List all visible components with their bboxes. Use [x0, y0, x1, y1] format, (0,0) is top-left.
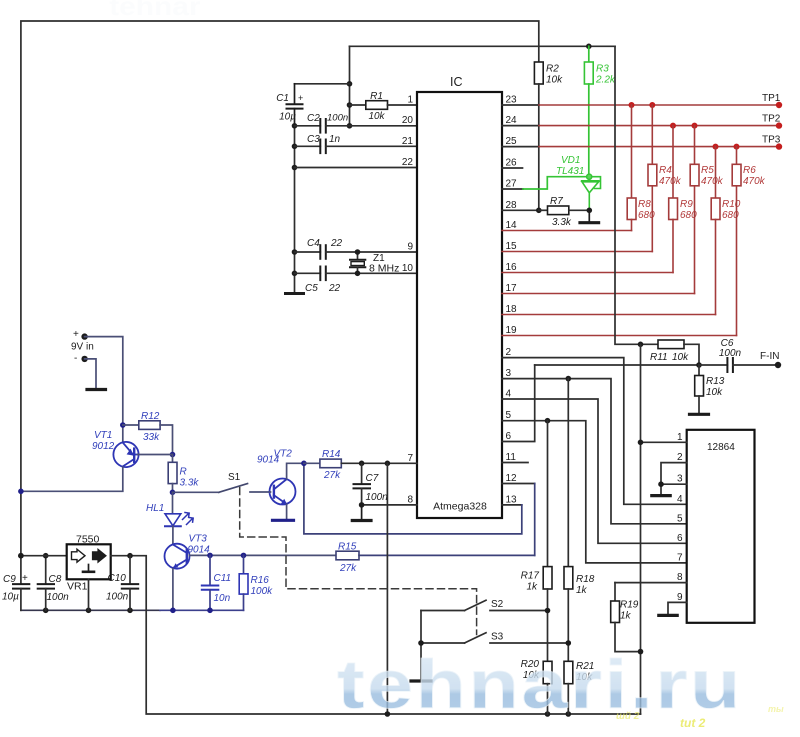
svg-text:R17: R17 [521, 571, 540, 582]
svg-text:20: 20 [402, 115, 414, 126]
wire LCD pin2+pin3 to ground [661, 463, 687, 495]
wire VR1 ground pin [88, 579, 90, 610]
svg-text:R: R [180, 467, 187, 478]
svg-text:HL1: HL1 [146, 503, 164, 514]
svg-text:14: 14 [506, 220, 518, 231]
svg-text:8: 8 [407, 494, 413, 505]
svg-text:470k: 470k [659, 176, 682, 187]
svg-text:1: 1 [677, 432, 683, 443]
resistor R20 10k [521, 659, 552, 714]
node C10 tap [127, 553, 133, 559]
capacitor C4 on pin9 wire [295, 245, 418, 259]
wire VR1 output rail to +5V bottom rail [111, 556, 641, 714]
node +5V branch to LCD pin1 [638, 342, 644, 348]
node VT1 base / R12 / R [170, 452, 176, 458]
pin labels left side [402, 95, 414, 506]
svg-text:19: 19 [506, 325, 518, 336]
svg-text:24: 24 [506, 115, 518, 126]
node 9V rail / R12 / VT1 emitter [120, 422, 126, 428]
wire VT3 emitter [172, 569, 174, 611]
svg-text:6: 6 [677, 533, 683, 544]
svg-text:VD1: VD1 [561, 155, 580, 166]
wire VT1 collector to left rail [21, 467, 123, 491]
svg-text:+: + [298, 93, 303, 103]
wire IC pin8 (GND) [362, 504, 417, 506]
svg-text:R4: R4 [659, 165, 672, 176]
svg-text:R15: R15 [338, 542, 357, 553]
resistor R2 [534, 62, 563, 210]
wire VT2 collector [287, 463, 304, 478]
svg-text:16: 16 [506, 262, 518, 273]
svg-text:R11: R11 [650, 352, 668, 363]
svg-text:100k: 100k [251, 586, 274, 597]
wire IC pin3 to LCD pin5 [502, 379, 687, 524]
svg-text:11: 11 [506, 452, 517, 463]
resistor R4 470k (red, TP1 divider high) [648, 105, 682, 252]
node C8 tap on VR1 input rail [43, 553, 49, 559]
wire VT2 base [269, 491, 272, 493]
svg-text:9014: 9014 [257, 455, 280, 466]
node junction C1 branch [347, 81, 353, 129]
svg-text:8 MHz: 8 MHz [369, 263, 399, 275]
svg-text:tehnari.ru: tehnari.ru [337, 646, 743, 723]
ground for left rail [286, 292, 304, 295]
svg-text:1n: 1n [329, 134, 341, 145]
svg-text:1k: 1k [576, 585, 588, 596]
resistor R18 1k [564, 379, 595, 662]
svg-text:2.2k: 2.2k [595, 75, 616, 86]
resistor R19 1k [611, 583, 644, 655]
node C9 tap [18, 553, 24, 559]
svg-text:TP1: TP1 [762, 93, 781, 104]
IC U1 Atmega328 box [417, 75, 502, 518]
wire IC pin5 to LCD pin7 [502, 421, 687, 563]
capacitor C3 on pin21 wire [295, 140, 418, 154]
svg-text:C7: C7 [366, 473, 379, 484]
terminal F-IN [733, 351, 781, 368]
svg-text:F-IN: F-IN [760, 351, 779, 362]
svg-text:21: 21 [402, 136, 414, 147]
wire IC pin6 up to F-IN node [502, 365, 535, 442]
svg-text:3: 3 [677, 474, 683, 485]
resistor R8 680 (red, TP1 divider low) [627, 105, 655, 231]
transistor VT1 9012 (PNP) [92, 430, 139, 467]
switch S2 [421, 599, 550, 613]
capacitor C8 100n [38, 556, 69, 611]
wire pin17 (red) [502, 293, 695, 295]
svg-text:100n: 100n [106, 592, 129, 603]
resistor R 3.3k [168, 455, 199, 493]
svg-text:9V in: 9V in [71, 342, 94, 353]
svg-text:VT3: VT3 [189, 534, 208, 545]
crystal Z1 [350, 249, 399, 276]
capacitor C11 10n [202, 555, 231, 610]
capacitor C9 10u (electrolytic) [2, 573, 29, 610]
svg-text:13: 13 [506, 494, 518, 505]
svg-text:100n: 100n [47, 592, 70, 603]
wire pin23 to TP1 (red) [502, 93, 782, 108]
svg-text:1: 1 [407, 95, 413, 106]
resistor R6 470k (red, TP3 divider high) [732, 147, 765, 336]
LED HL1 [146, 492, 193, 543]
svg-text:R14: R14 [322, 449, 341, 460]
wire VT1 base [138, 454, 173, 456]
svg-text:C8: C8 [49, 574, 62, 585]
ground for LCD pin9 [659, 614, 677, 617]
wire analog ground rail [21, 609, 244, 611]
ground for R13 [690, 413, 709, 416]
svg-text:TL431: TL431 [556, 166, 584, 177]
wire pin16 (red) [502, 272, 673, 274]
svg-text:12864: 12864 [707, 442, 735, 453]
svg-text:2: 2 [677, 452, 683, 463]
resistor R10 680 (red, TP3 divider low) [711, 147, 741, 315]
svg-text:C3: C3 [307, 134, 320, 145]
svg-text:R3: R3 [596, 64, 609, 75]
ground for S2/S3 [411, 679, 431, 682]
svg-text:9012: 9012 [92, 441, 115, 452]
svg-text:9: 9 [677, 592, 683, 603]
wire VR1 input rail [21, 555, 67, 557]
svg-text:12: 12 [506, 473, 518, 484]
svg-text:R8: R8 [638, 199, 651, 210]
svg-text:3.3k: 3.3k [552, 217, 572, 228]
svg-text:8: 8 [677, 572, 683, 583]
svg-text:IC: IC [450, 75, 463, 89]
ground for TL431 anode [580, 210, 599, 222]
svg-text:7: 7 [677, 552, 683, 563]
svg-text:TP3: TP3 [762, 135, 781, 146]
svg-text:R6: R6 [743, 165, 756, 176]
switch S1 [173, 472, 270, 492]
wire F-IN node line to IC pin6 column [535, 364, 699, 366]
resistor R16 100k [239, 555, 273, 610]
resistor R7 [536, 196, 592, 228]
svg-text:VR1: VR1 [67, 581, 88, 593]
svg-text:470k: 470k [701, 176, 724, 187]
resistor R11 10k [650, 340, 699, 365]
svg-text:6: 6 [506, 431, 512, 442]
resistor R1 [350, 91, 418, 122]
transistor VT3 9014 (NPN, base right) [165, 534, 211, 569]
svg-text:23: 23 [506, 95, 518, 106]
svg-text:S3: S3 [491, 632, 504, 643]
svg-text:C5: C5 [305, 283, 318, 294]
wire pin27 (green path to TL431 ref) [502, 177, 588, 189]
svg-text:17: 17 [506, 283, 518, 294]
capacitor C7 100n [354, 463, 389, 505]
wire pin25 to TP3 (red) [502, 135, 782, 150]
wire pin28 [502, 209, 539, 211]
svg-text:3.3k: 3.3k [180, 478, 200, 489]
svg-text:S2: S2 [491, 599, 504, 610]
wire pin15 (red) [502, 251, 652, 253]
shunt regulator VD1 TL431 (green) [556, 155, 601, 210]
svg-text:C1: C1 [276, 93, 289, 104]
svg-text:22: 22 [330, 238, 343, 249]
wire LCD pin9 to ground [668, 602, 687, 614]
wire left rail x=294.5 [294, 126, 296, 293]
svg-text:R12: R12 [141, 411, 160, 422]
svg-text:R10: R10 [722, 199, 741, 210]
resistor R15 27k [336, 542, 535, 575]
wire VT3 base line with C11 R16 taps [190, 554, 337, 556]
svg-text:7: 7 [407, 453, 413, 464]
svg-text:R9: R9 [680, 199, 693, 210]
svg-text:C10: C10 [108, 573, 127, 584]
node R / HL1 / S1 [170, 490, 176, 496]
svg-text:R19: R19 [620, 600, 639, 611]
wire VCC drop column x=349.5 [349, 46, 351, 126]
node VR1 input / big loop junction [18, 553, 24, 559]
svg-text:7550: 7550 [76, 534, 100, 546]
wire pin14 (red) [502, 230, 632, 232]
svg-text:ты: ты [768, 704, 784, 714]
svg-text:C11: C11 [214, 573, 232, 584]
LCD pin labels [677, 432, 683, 603]
svg-text:27: 27 [506, 179, 518, 190]
svg-text:10µ: 10µ [2, 592, 19, 603]
capacitor C6 100n [699, 338, 742, 372]
capacitor C1 [287, 84, 303, 126]
svg-text:+: + [73, 329, 79, 340]
wire +5V column x=640.5 down to bottom rail [640, 344, 642, 714]
svg-text:tehnar: tehnar [109, 0, 200, 21]
wire big loop: R2 top to left edge down to VT1 collector / VR1 input [21, 21, 539, 584]
svg-text:4: 4 [506, 389, 512, 400]
watermark small yellow text [616, 704, 784, 730]
node bottom rail R17/R18 [545, 711, 551, 717]
svg-text:22: 22 [402, 157, 414, 168]
pin 26 stub [502, 167, 523, 169]
svg-text:100n: 100n [327, 113, 348, 124]
capacitor C10 100n [106, 556, 138, 611]
svg-text:C2: C2 [307, 113, 320, 124]
svg-text:5: 5 [506, 410, 512, 421]
resistor R9 680 (red, TP2 divider low) [669, 126, 697, 273]
ground for LCD pins 2,3 [652, 494, 670, 497]
capacitor C2 on pin20 wire [295, 119, 418, 133]
resistor R17 1k [521, 421, 552, 662]
svg-text:2: 2 [506, 347, 512, 358]
svg-text:C9: C9 [3, 574, 16, 585]
svg-text:10k: 10k [546, 75, 563, 86]
svg-text:R2: R2 [546, 64, 559, 75]
wire pin19 (red) [502, 335, 737, 337]
svg-text:3: 3 [506, 368, 512, 379]
mechanical link S1-S2-S3 (dashed) [240, 488, 477, 635]
svg-text:R16: R16 [251, 575, 270, 586]
svg-text:tut 2: tut 2 [680, 716, 706, 730]
svg-text:R18: R18 [576, 574, 595, 585]
svg-text:10k: 10k [368, 111, 385, 122]
svg-text:1k: 1k [526, 582, 538, 593]
svg-text:R5: R5 [701, 165, 714, 176]
svg-text:R13: R13 [706, 376, 725, 387]
svg-text:R1: R1 [370, 91, 383, 102]
svg-text:шй 2: шй 2 [616, 711, 640, 722]
wire VT2 emitter to ground [286, 504, 288, 519]
svg-text:R7: R7 [550, 196, 563, 207]
wire +5V column x=387.4 [386, 463, 388, 714]
wire LCD pin1 to +5V [641, 441, 687, 443]
pin 11 stub [502, 462, 528, 464]
svg-text:5: 5 [677, 513, 683, 524]
svg-text:4: 4 [677, 494, 683, 505]
svg-text:10k: 10k [706, 387, 723, 398]
svg-text:26: 26 [506, 158, 518, 169]
switch S3 [421, 632, 571, 646]
node dots on left rail [292, 123, 298, 276]
ground for VT2 emitter [273, 519, 294, 522]
svg-text:15: 15 [506, 241, 518, 252]
terminal 9V in minus [74, 353, 96, 388]
svg-text:1k: 1k [620, 611, 632, 622]
svg-text:100n: 100n [719, 348, 742, 359]
svg-text:10µ: 10µ [279, 112, 296, 123]
resistor R21 10k [564, 661, 594, 714]
resistor R5 470k (red, TP2 divider high) [690, 126, 723, 294]
wire C1 top branch [295, 83, 350, 85]
wire IC pin12 down to R15 (navy) [502, 483, 535, 485]
svg-text:18: 18 [506, 304, 518, 315]
terminal 9V in plus [71, 329, 123, 443]
svg-text:C4: C4 [307, 238, 320, 249]
LCD module 12864 box [687, 430, 755, 623]
wire IC pin13 to VT2 collector (navy) [502, 504, 522, 506]
wire IC pin2 to LCD pin4 [502, 358, 687, 505]
resistor R13 10k [695, 365, 725, 413]
wire pin18 (red) [502, 314, 716, 316]
svg-text:10k: 10k [672, 352, 689, 363]
svg-text:9: 9 [407, 242, 413, 253]
voltage regulator VR1 7550 [67, 534, 111, 593]
ground for 9V minus [87, 388, 106, 391]
svg-text:Atmega328: Atmega328 [433, 501, 487, 513]
resistor R3 (green) [584, 44, 616, 175]
wire LCD pin8 to R19 [615, 582, 687, 584]
resistor R12 33k [123, 411, 173, 455]
svg-text:470k: 470k [743, 176, 766, 187]
svg-text:VT1: VT1 [94, 430, 112, 441]
svg-text:27k: 27k [323, 470, 341, 481]
transistor VT2 9014 (NPN) [257, 449, 296, 505]
svg-text:27k: 27k [339, 563, 357, 574]
wire supply column x=615 from VCC rail down to R11 [615, 46, 658, 344]
svg-text:TP2: TP2 [762, 114, 781, 125]
svg-text:10: 10 [402, 263, 414, 274]
resistor R14 27k [304, 449, 341, 481]
wire pin24 to TP2 (red) [502, 114, 782, 129]
node VT2 collector / R14 / pin13 line [301, 461, 307, 467]
svg-text:25: 25 [506, 136, 518, 147]
svg-text:22: 22 [328, 283, 341, 294]
svg-text:100n: 100n [366, 492, 389, 503]
pin labels right side [506, 95, 518, 506]
wire VCC top rail [350, 45, 616, 47]
svg-text:33k: 33k [143, 432, 160, 443]
wire IC pin7 (VCC) [341, 462, 417, 464]
svg-text:+: + [22, 573, 28, 584]
svg-text:28: 28 [506, 200, 518, 211]
ground for pin8 / C7 [352, 505, 371, 521]
wire pin22 [295, 167, 418, 169]
svg-text:9014: 9014 [188, 545, 211, 556]
svg-text:S1: S1 [228, 472, 241, 483]
capacitor C5 on pin10 wire [295, 267, 418, 281]
svg-text:10n: 10n [214, 593, 231, 604]
wire IC pin4 to LCD pin6 [502, 399, 687, 543]
svg-text:-: - [74, 353, 77, 364]
wire S2/S3 common to ground [420, 611, 422, 681]
